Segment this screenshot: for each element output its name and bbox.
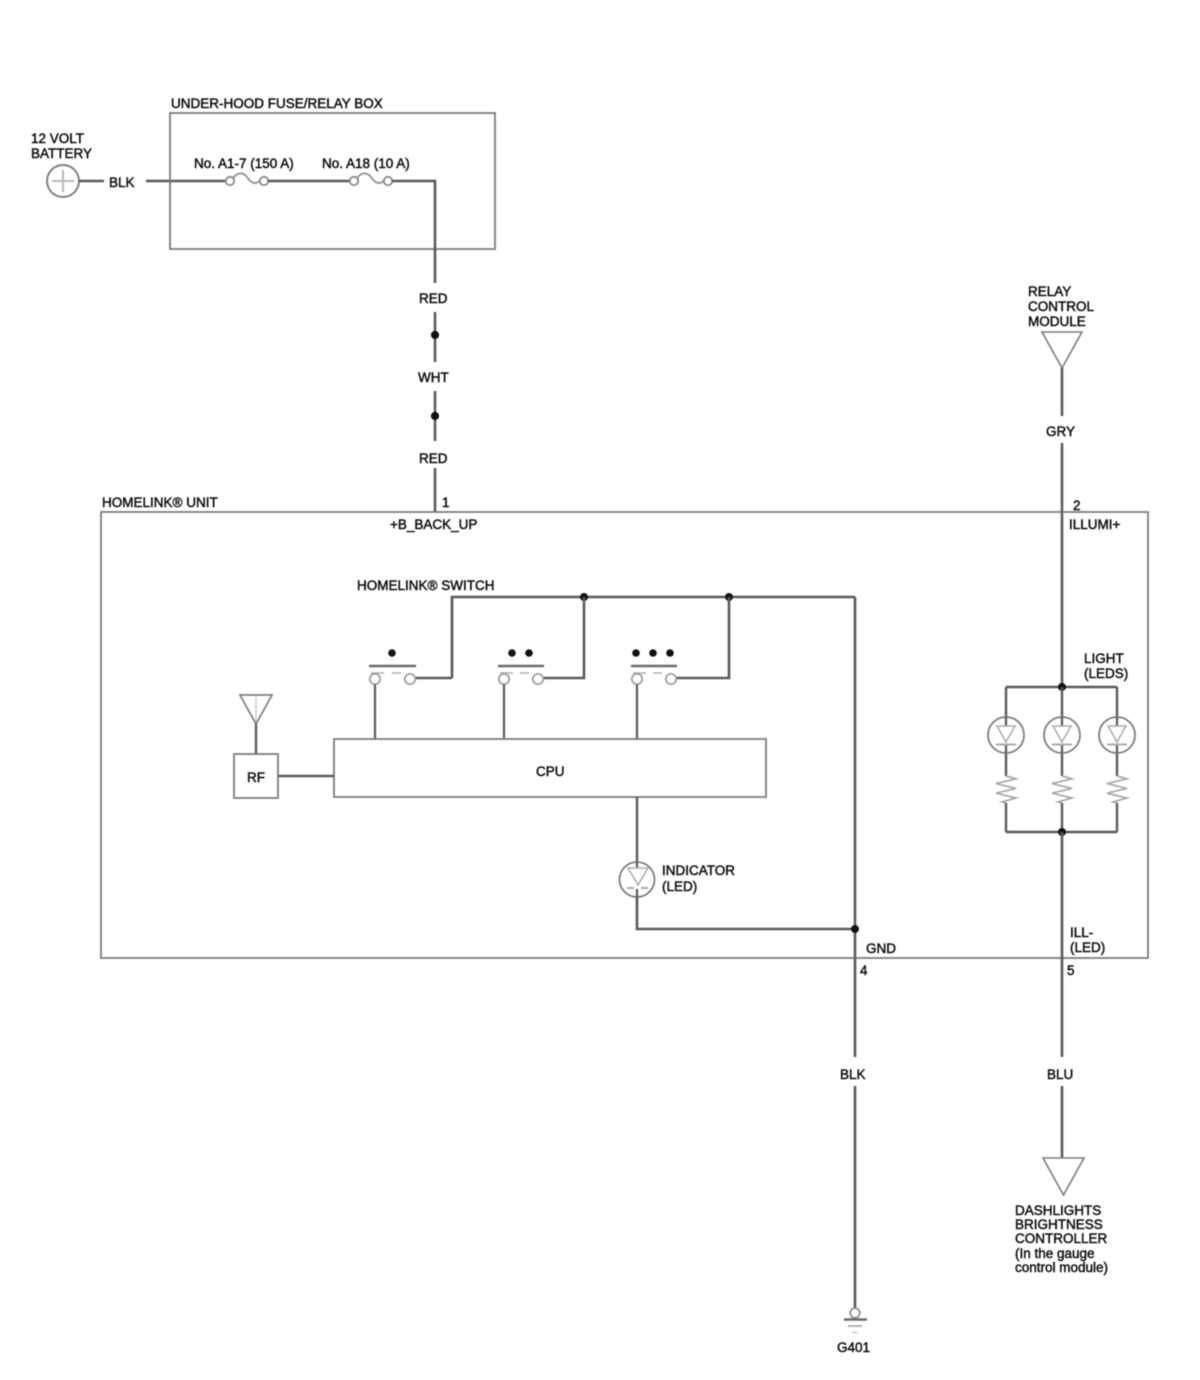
svg-text:GRY: GRY [1046, 424, 1075, 439]
svg-text:UNDER-HOOD FUSE/RELAY BOX: UNDER-HOOD FUSE/RELAY BOX [171, 96, 383, 111]
wire from relay module [1061, 368, 1064, 416]
svg-text:(LED): (LED) [662, 879, 697, 894]
switch SW3 (three dots) [631, 649, 677, 739]
wire CPU to indicator led [636, 797, 638, 862]
svg-text:(LED): (LED) [1070, 940, 1105, 955]
wire battery to BLK label [79, 180, 104, 183]
svg-text:(LEDS): (LEDS) [1084, 666, 1128, 681]
svg-text:BLK: BLK [840, 1067, 866, 1082]
relay control module connector [1028, 284, 1094, 368]
svg-text:2: 2 [1073, 498, 1081, 513]
LED bottom rail [1006, 831, 1117, 833]
svg-text:12 VOLT: 12 VOLT [31, 131, 84, 146]
svg-text:1: 1 [442, 495, 450, 510]
indicator LED D4 [620, 862, 736, 897]
wire BLU to dashlights controller [1061, 1086, 1064, 1158]
wire bus to switch 3 [677, 597, 729, 678]
switch bus wire [452, 597, 855, 678]
wire to pin 1 [434, 468, 437, 512]
wire BLK to fuse A1-7 [146, 180, 226, 183]
svg-text:HOMELINK® UNIT: HOMELINK® UNIT [102, 495, 218, 510]
svg-text:No. A18 (10 A): No. A18 (10 A) [322, 156, 410, 171]
svg-text:5: 5 [1067, 963, 1075, 978]
svg-text:BRIGHTNESS: BRIGHTNESS [1015, 1217, 1103, 1232]
wire GRY to pin 2 and into unit [1061, 443, 1064, 687]
junction dot [851, 925, 859, 933]
dashlights brightness controller connector [1015, 1158, 1108, 1275]
fuse No. A18 (10 A) [322, 156, 410, 185]
wire segment with splice [434, 391, 437, 441]
wire between fuses [268, 180, 350, 183]
wire BLK to ground [854, 1086, 857, 1308]
LED top rail [1006, 686, 1117, 688]
wire bus to switch 2 [544, 597, 584, 678]
CPU box [334, 739, 766, 797]
fuse No. A1-7 (150 A) [194, 156, 294, 185]
svg-text:RELAY: RELAY [1028, 284, 1071, 299]
svg-text:CPU: CPU [536, 764, 565, 779]
junction dot [725, 593, 733, 601]
antenna [240, 695, 272, 754]
junction dot [580, 593, 588, 601]
RF box [234, 754, 278, 798]
resistor R1 [996, 776, 1016, 803]
LED D1 branch [988, 687, 1024, 832]
junction dot [1058, 828, 1066, 836]
svg-text:ILL-: ILL- [1070, 925, 1093, 940]
switch SW1 (one dot) [369, 649, 452, 739]
svg-text:No. A1-7 (150 A): No. A1-7 (150 A) [194, 156, 294, 171]
wire bus down to gnd rail [854, 597, 857, 1057]
switch SW2 (two dots) [498, 649, 544, 739]
svg-text:LIGHT: LIGHT [1084, 651, 1124, 666]
svg-text:BATTERY: BATTERY [31, 146, 92, 161]
svg-text:GND: GND [866, 941, 896, 956]
svg-text:DASHLIGHTS: DASHLIGHTS [1015, 1203, 1101, 1218]
battery B1 (12 volt battery) [31, 131, 92, 197]
svg-text:ILLUMI+: ILLUMI+ [1069, 517, 1121, 532]
svg-text:WHT: WHT [418, 370, 449, 385]
svg-text:CONTROLLER: CONTROLLER [1015, 1231, 1108, 1246]
svg-text:control module): control module) [1015, 1260, 1108, 1275]
resistor R2 [1052, 776, 1072, 803]
svg-text:CONTROL: CONTROL [1028, 299, 1094, 314]
LED D2 branch [1044, 687, 1080, 832]
svg-text:RF: RF [247, 770, 265, 785]
svg-text:(In the gauge: (In the gauge [1015, 1246, 1095, 1261]
svg-text:G401: G401 [837, 1340, 870, 1355]
svg-text:BLU: BLU [1047, 1067, 1073, 1082]
LED D3 branch [1099, 687, 1135, 832]
splice dot [431, 331, 439, 339]
svg-text:INDICATOR: INDICATOR [662, 863, 735, 878]
svg-text:4: 4 [860, 963, 868, 978]
wire LED rail to pin 5 [1061, 832, 1064, 1057]
under-hood fuse/relay box [170, 96, 495, 249]
svg-text:RED: RED [419, 291, 448, 306]
svg-text:HOMELINK® SWITCH: HOMELINK® SWITCH [357, 578, 494, 593]
wire fuse A18 to corner and down out of box [392, 181, 435, 283]
ground G401 [837, 1308, 870, 1355]
wire RF to CPU [278, 775, 334, 778]
resistor R3 [1107, 776, 1127, 803]
svg-text:RED: RED [419, 451, 448, 466]
wire indicator led to gnd rail [637, 897, 855, 929]
homelink unit box [101, 495, 1148, 958]
svg-text:BLK: BLK [109, 175, 135, 190]
svg-text:+B_BACK_UP: +B_BACK_UP [390, 517, 477, 532]
junction dot [1058, 683, 1066, 691]
wire segment with splice [434, 312, 437, 362]
splice dot [431, 412, 439, 420]
svg-text:MODULE: MODULE [1028, 314, 1086, 329]
